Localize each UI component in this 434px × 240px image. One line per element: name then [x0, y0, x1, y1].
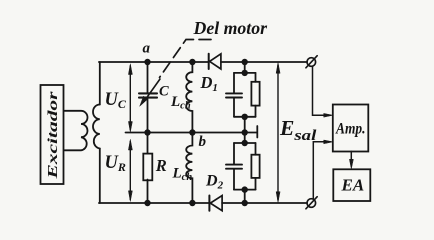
- svg-text:Amp.: Amp.: [335, 120, 365, 137]
- wire top rail to RC1: [244, 62, 246, 73]
- wire left rail (bottom segment): [99, 149, 101, 204]
- terminal bottom (circle with slash): [306, 197, 317, 209]
- diode D1 (cathode bar left, triangle pointing left): [209, 54, 221, 69]
- svg-text:Excitador: Excitador: [46, 91, 61, 180]
- filter capacitor 1: [233, 73, 235, 93]
- block Amp: [333, 105, 369, 152]
- junction dot top rail at RC1: [242, 59, 248, 65]
- svg-text:Lch: Lch: [172, 166, 193, 184]
- junction dot C-R branch at middle rail: [144, 129, 150, 135]
- junction dot at L_ch top rail: [189, 59, 195, 65]
- node b (junction dot + label): [189, 129, 195, 135]
- wire middle rail: [126, 132, 245, 134]
- inductor L_ch (top): [186, 62, 192, 133]
- RC filter network 1 (top): capacitor + resistor in parallel: [226, 70, 260, 133]
- block Excitador: [41, 85, 64, 184]
- svg-text:D1: D1: [200, 73, 218, 94]
- svg-text:R: R: [155, 156, 167, 175]
- svg-text:b: b: [199, 134, 207, 150]
- svg-text:Del motor: Del motor: [193, 18, 268, 38]
- RC filter network 2 (bottom): capacitor + resistor in parallel: [226, 133, 260, 204]
- svg-text:Esal: Esal: [279, 116, 317, 144]
- svg-text:a: a: [143, 41, 151, 57]
- wire top terminal to Amp (with arrowhead): [313, 66, 333, 117]
- junction dot bottom rail at RC2: [242, 200, 248, 206]
- wire top rail: [99, 61, 307, 63]
- transformer secondary winding (on left rail): [93, 105, 100, 149]
- svg-text:Lch: Lch: [170, 94, 191, 112]
- svg-text:UC: UC: [105, 90, 127, 111]
- junction dots bottom rail (R branch, L branch): [144, 200, 150, 206]
- svg-text:D2: D2: [205, 173, 224, 192]
- svg-text:UR: UR: [105, 153, 126, 174]
- arrow E_sal (output voltage, both heads): [276, 63, 280, 202]
- svg-text:C: C: [159, 84, 169, 100]
- filter resistor 1: [255, 73, 257, 82]
- wire left rail (top segment): [99, 62, 101, 105]
- variable-capacitor arrow: [144, 79, 160, 102]
- transformer primary winding: [65, 111, 88, 151]
- arrow U_R (voltage arrow, both heads): [128, 140, 132, 202]
- label Del motor with dashed leader: [160, 18, 268, 77]
- capacitor C (variable, on branch a to middle rail): [139, 62, 160, 133]
- block EA: [333, 169, 370, 201]
- wire bottom terminal to Amp (with arrowhead): [313, 140, 332, 199]
- arrow U_C (voltage arrow, both heads): [128, 64, 132, 132]
- junction dot middle rail at RC networks: [242, 129, 248, 135]
- diode D2 (cathode bar left, triangle pointing left): [209, 196, 222, 211]
- arrow Amp to EA: [349, 151, 353, 168]
- inductor L_ch (bottom): [186, 133, 192, 204]
- resistor R: [143, 133, 152, 204]
- wire bottom rail: [99, 202, 307, 204]
- node a (junction dot + label): [144, 59, 150, 65]
- filter resistor 2: [255, 143, 257, 155]
- svg-text:EA: EA: [341, 176, 365, 195]
- terminal top (circle with slash): [306, 56, 317, 68]
- output stub terminal at middle rail: [245, 126, 258, 138]
- filter capacitor 2: [233, 143, 235, 164]
